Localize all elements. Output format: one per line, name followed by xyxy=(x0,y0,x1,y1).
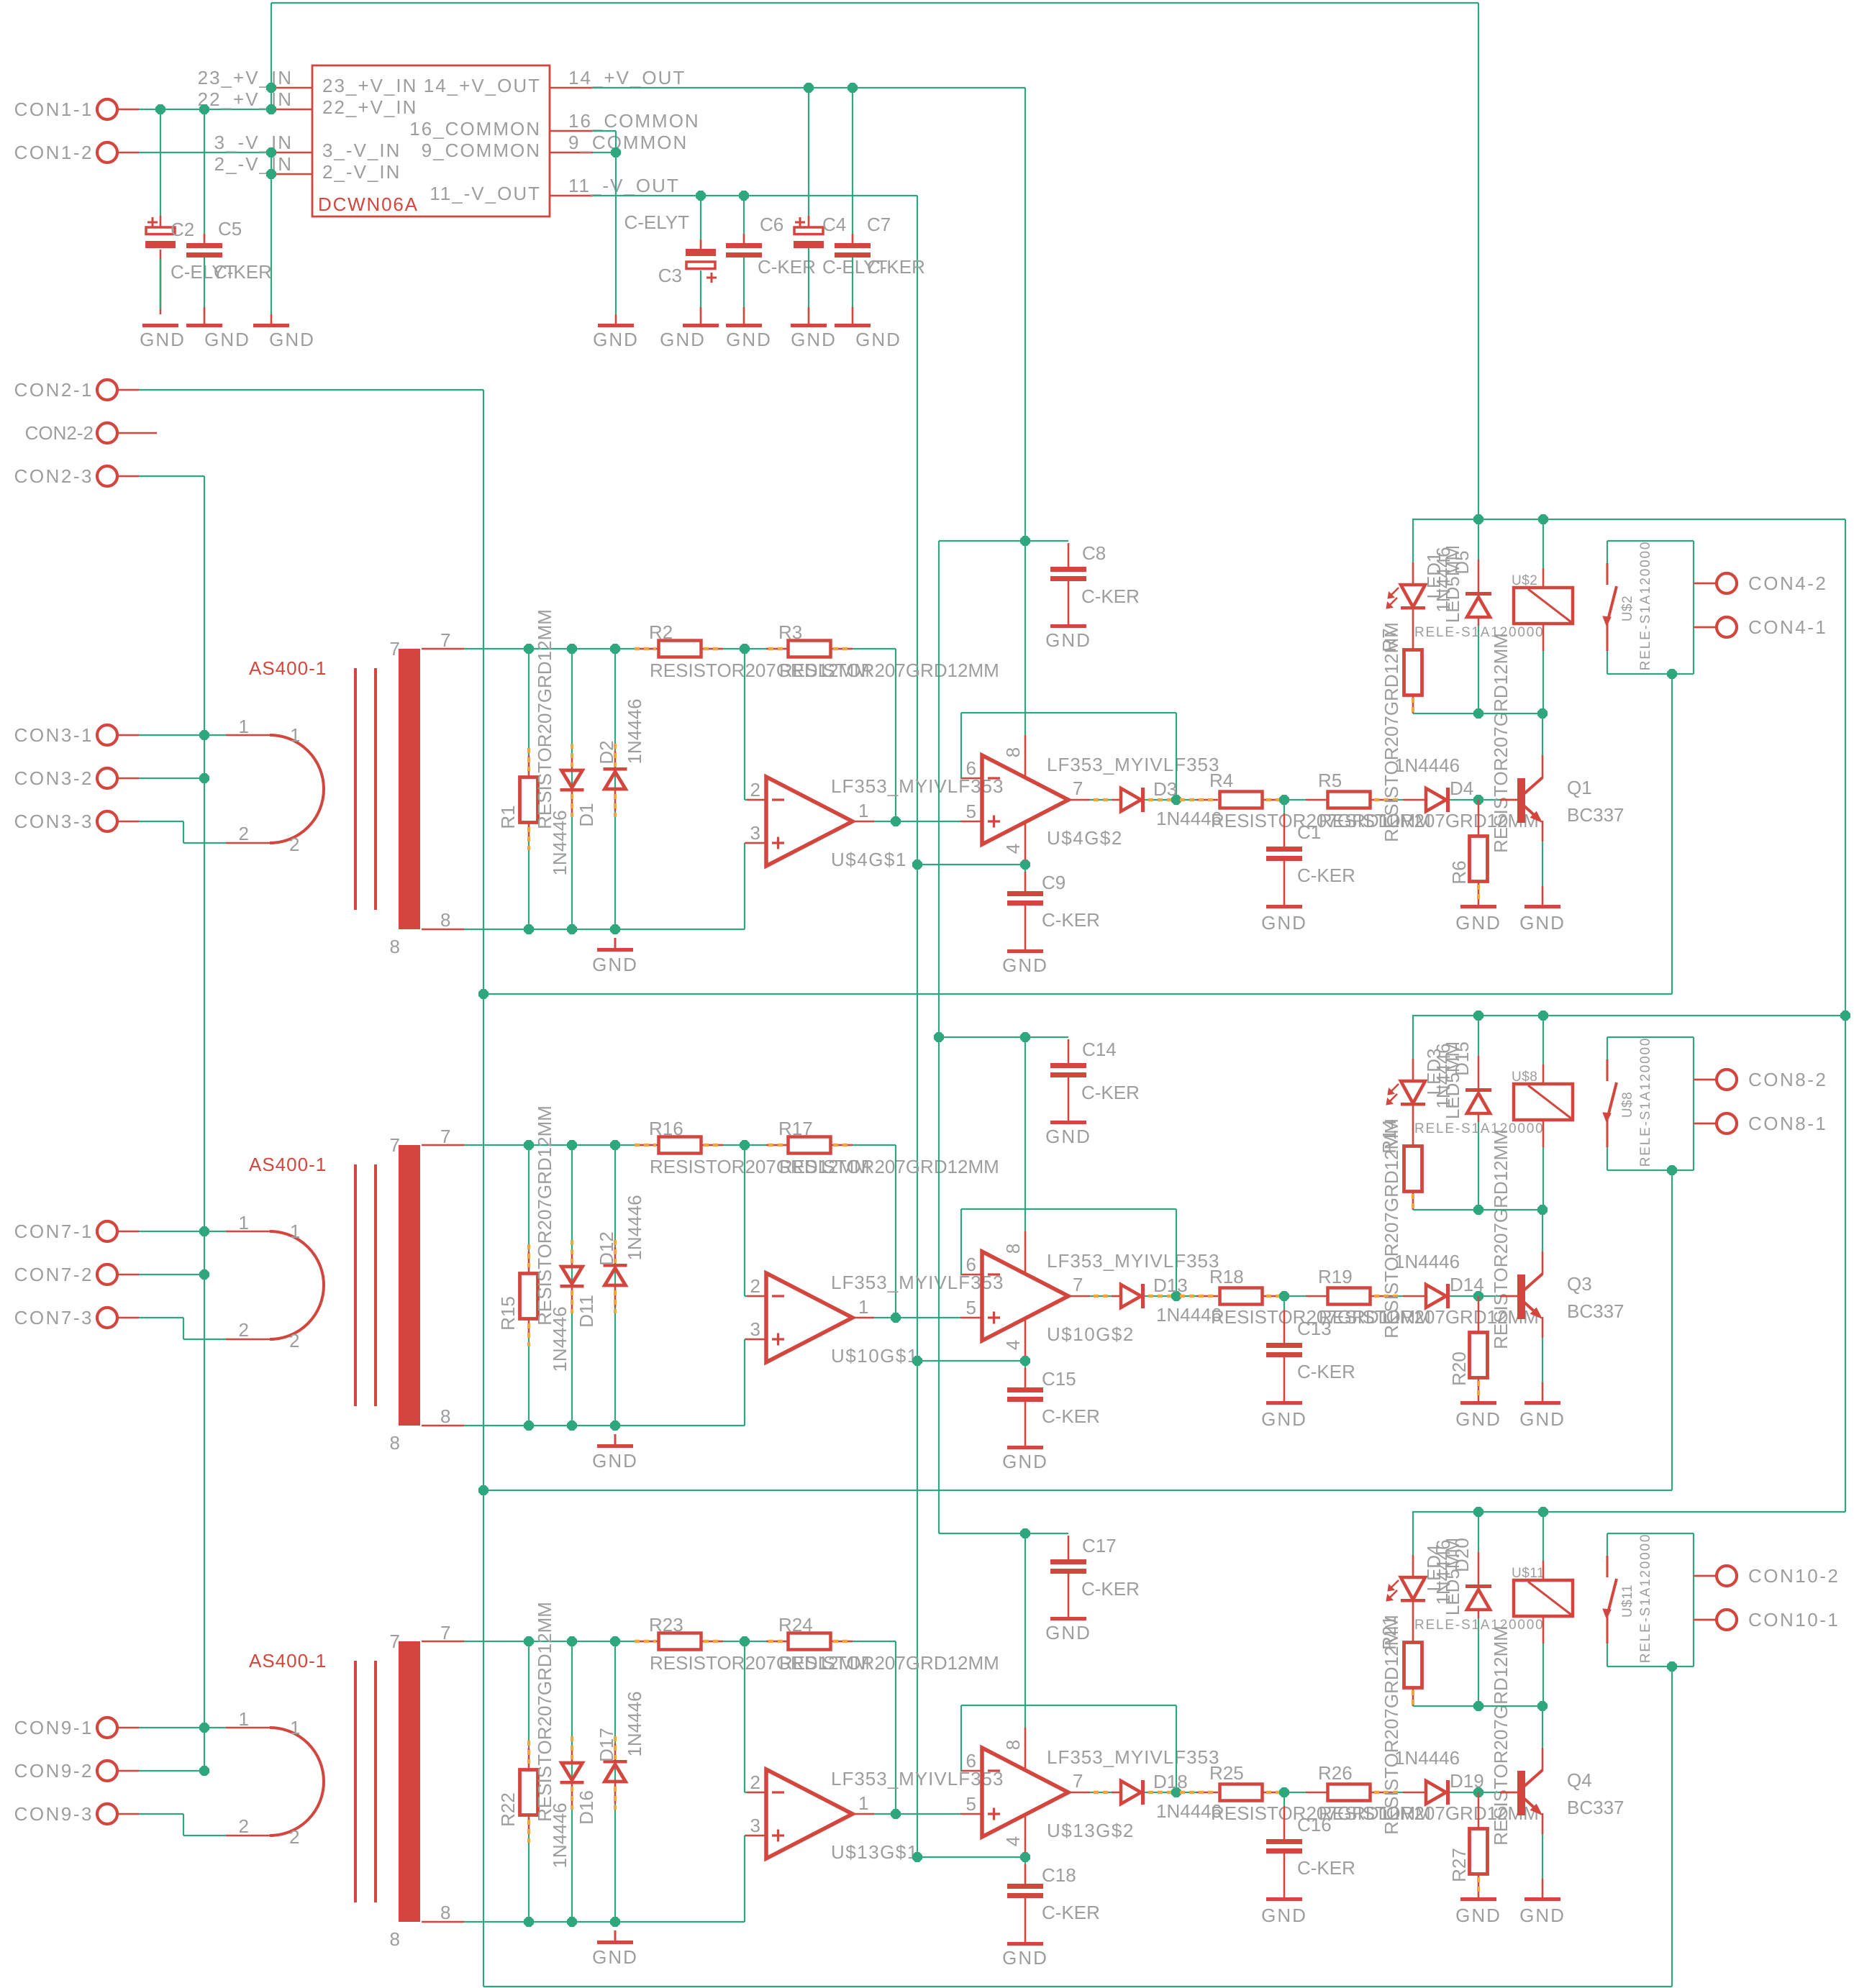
svg-text:BC337: BC337 xyxy=(1567,1300,1624,1322)
svg-text:1N4446: 1N4446 xyxy=(1394,1747,1460,1769)
svg-text:1N4446: 1N4446 xyxy=(549,810,571,875)
svg-text:GND: GND xyxy=(660,329,706,350)
svg-text:C-KER: C-KER xyxy=(1042,909,1100,931)
svg-text:2: 2 xyxy=(750,1275,760,1297)
svg-text:R27: R27 xyxy=(1448,1848,1470,1882)
svg-text:1: 1 xyxy=(858,1792,868,1814)
svg-text:D19: D19 xyxy=(1450,1770,1484,1792)
svg-text:7: 7 xyxy=(390,1631,400,1652)
svg-text:4: 4 xyxy=(1002,844,1024,854)
svg-text:8: 8 xyxy=(390,1432,400,1454)
svg-text:23_+V_IN: 23_+V_IN xyxy=(198,67,293,88)
svg-text:CON2-1: CON2-1 xyxy=(14,379,94,401)
svg-text:RESISTOR207GRD12MM: RESISTOR207GRD12MM xyxy=(534,1602,555,1822)
svg-text:C-KER: C-KER xyxy=(1081,1578,1140,1600)
svg-text:D16: D16 xyxy=(576,1790,597,1825)
svg-text:1: 1 xyxy=(239,1708,249,1730)
svg-text:GND: GND xyxy=(1002,954,1048,976)
svg-text:4: 4 xyxy=(1002,1836,1024,1846)
svg-text:3_-V_IN: 3_-V_IN xyxy=(214,132,293,153)
svg-text:RELE-S1A120000: RELE-S1A120000 xyxy=(1638,541,1653,670)
svg-text:Q3: Q3 xyxy=(1567,1273,1592,1295)
svg-text:CON1-1: CON1-1 xyxy=(14,99,94,120)
svg-text:2: 2 xyxy=(289,1826,299,1848)
svg-text:RESISTOR207GRD12MM: RESISTOR207GRD12MM xyxy=(779,1652,999,1674)
svg-text:2: 2 xyxy=(289,1330,299,1351)
svg-text:C6: C6 xyxy=(760,214,783,235)
svg-text:R17: R17 xyxy=(778,1118,813,1139)
svg-text:1N4446: 1N4446 xyxy=(1394,754,1460,776)
svg-text:AS400-1: AS400-1 xyxy=(249,1154,327,1175)
svg-text:U$13G$1: U$13G$1 xyxy=(831,1841,919,1863)
svg-text:8: 8 xyxy=(1002,747,1024,757)
svg-text:C18: C18 xyxy=(1042,1864,1076,1886)
svg-text:R15: R15 xyxy=(497,1296,519,1331)
svg-text:GND: GND xyxy=(791,329,837,350)
svg-text:7: 7 xyxy=(1073,1770,1083,1792)
svg-text:RELE-S1A120000: RELE-S1A120000 xyxy=(1414,1618,1544,1633)
svg-text:GND: GND xyxy=(592,1946,638,1968)
svg-text:CON3-1: CON3-1 xyxy=(14,724,94,746)
svg-text:1: 1 xyxy=(858,800,868,821)
svg-text:C5: C5 xyxy=(218,218,242,240)
svg-text:5: 5 xyxy=(966,801,976,822)
svg-text:CON7-2: CON7-2 xyxy=(14,1264,94,1285)
svg-text:CON9-1: CON9-1 xyxy=(14,1717,94,1738)
svg-text:14_+V_OUT: 14_+V_OUT xyxy=(424,75,541,96)
svg-text:GND: GND xyxy=(140,329,186,350)
svg-text:D5: D5 xyxy=(1451,550,1473,574)
svg-text:1N4446: 1N4446 xyxy=(1394,1251,1460,1272)
svg-text:GND: GND xyxy=(204,329,250,350)
svg-text:C1: C1 xyxy=(1297,821,1321,843)
svg-text:RELE-S1A120000: RELE-S1A120000 xyxy=(1414,625,1544,640)
svg-text:C16: C16 xyxy=(1297,1814,1332,1836)
svg-text:C13: C13 xyxy=(1297,1318,1332,1339)
svg-text:1: 1 xyxy=(239,1212,249,1234)
svg-text:8: 8 xyxy=(1002,1740,1024,1750)
svg-text:RELE-S1A120000: RELE-S1A120000 xyxy=(1414,1121,1544,1136)
svg-text:1: 1 xyxy=(239,716,249,737)
svg-text:7: 7 xyxy=(1073,778,1083,799)
svg-text:CON4-1: CON4-1 xyxy=(1748,616,1827,638)
svg-text:D15: D15 xyxy=(1451,1041,1473,1076)
svg-text:CON7-3: CON7-3 xyxy=(14,1307,94,1328)
svg-text:6: 6 xyxy=(966,1750,976,1772)
svg-text:RESISTOR207GRD12MM: RESISTOR207GRD12MM xyxy=(779,660,999,681)
svg-text:C-KER: C-KER xyxy=(867,256,925,278)
svg-text:GND: GND xyxy=(1002,1947,1048,1969)
svg-text:7: 7 xyxy=(440,1622,450,1643)
svg-text:RESISTOR207GRD12MM: RESISTOR207GRD12MM xyxy=(534,609,555,829)
svg-text:R20: R20 xyxy=(1448,1351,1470,1386)
svg-text:2_-V_IN: 2_-V_IN xyxy=(214,153,293,175)
svg-text:R16: R16 xyxy=(649,1118,683,1139)
svg-text:CON3-2: CON3-2 xyxy=(14,767,94,789)
svg-text:R1: R1 xyxy=(497,805,519,829)
svg-text:R25: R25 xyxy=(1209,1762,1244,1784)
svg-text:D14: D14 xyxy=(1450,1274,1484,1295)
svg-text:U$11: U$11 xyxy=(1620,1585,1635,1618)
svg-text:8: 8 xyxy=(440,1902,450,1923)
svg-text:3: 3 xyxy=(750,1815,760,1836)
svg-text:RESISTOR207GRD12MM: RESISTOR207GRD12MM xyxy=(1490,1129,1512,1349)
svg-text:9_COMMON: 9_COMMON xyxy=(568,132,688,153)
svg-text:2: 2 xyxy=(750,779,760,801)
svg-text:5: 5 xyxy=(966,1793,976,1815)
svg-text:11_-V_OUT: 11_-V_OUT xyxy=(568,175,680,196)
svg-text:1: 1 xyxy=(858,1296,868,1318)
svg-text:6: 6 xyxy=(966,757,976,779)
svg-text:GND: GND xyxy=(1455,912,1501,934)
svg-text:GND: GND xyxy=(592,1450,638,1472)
svg-text:AS400-1: AS400-1 xyxy=(249,657,327,679)
svg-text:GND: GND xyxy=(1261,1408,1307,1430)
svg-text:D2: D2 xyxy=(596,740,617,764)
svg-text:6: 6 xyxy=(966,1254,976,1275)
svg-text:RESISTOR207GRD12MM: RESISTOR207GRD12MM xyxy=(534,1105,555,1326)
svg-text:C-KER: C-KER xyxy=(1297,1361,1355,1382)
svg-text:C8: C8 xyxy=(1082,542,1106,564)
svg-text:R18: R18 xyxy=(1209,1266,1244,1287)
svg-text:CON3-3: CON3-3 xyxy=(14,811,94,832)
svg-text:LF353_MYIVLF353: LF353_MYIVLF353 xyxy=(1047,1250,1219,1272)
svg-text:22_+V_IN: 22_+V_IN xyxy=(322,96,417,118)
svg-text:1: 1 xyxy=(290,724,300,746)
svg-text:2: 2 xyxy=(239,823,249,844)
svg-text:D18: D18 xyxy=(1153,1771,1188,1792)
svg-text:9_COMMON: 9_COMMON xyxy=(422,140,541,161)
svg-text:2_-V_IN: 2_-V_IN xyxy=(322,161,401,183)
svg-text:1N4446: 1N4446 xyxy=(549,1306,571,1372)
svg-text:Q4: Q4 xyxy=(1567,1769,1592,1791)
svg-text:16_COMMON: 16_COMMON xyxy=(409,118,541,140)
svg-text:2: 2 xyxy=(750,1772,760,1793)
svg-text:R2: R2 xyxy=(649,621,673,643)
svg-text:GND: GND xyxy=(1045,1126,1091,1147)
svg-text:GND: GND xyxy=(593,329,639,350)
svg-text:8: 8 xyxy=(1002,1244,1024,1254)
svg-text:C7: C7 xyxy=(867,214,891,235)
svg-text:CON10-2: CON10-2 xyxy=(1748,1565,1840,1587)
svg-text:LF353_MYIVLF353: LF353_MYIVLF353 xyxy=(1047,754,1219,775)
svg-text:3: 3 xyxy=(750,822,760,844)
svg-text:2: 2 xyxy=(239,1815,249,1837)
svg-text:8: 8 xyxy=(390,936,400,957)
svg-text:C17: C17 xyxy=(1082,1535,1117,1556)
svg-text:C-KER: C-KER xyxy=(1081,585,1140,607)
svg-text:U$4G$2: U$4G$2 xyxy=(1047,827,1123,849)
svg-text:GND: GND xyxy=(855,329,901,350)
svg-text:D4: D4 xyxy=(1450,778,1473,799)
svg-text:GND: GND xyxy=(1045,629,1091,651)
svg-text:C-KER: C-KER xyxy=(214,261,272,283)
svg-text:RESISTOR207GRD12MM: RESISTOR207GRD12MM xyxy=(779,1156,999,1177)
svg-text:R5: R5 xyxy=(1318,770,1342,791)
svg-text:C-KER: C-KER xyxy=(1081,1082,1140,1103)
svg-text:1N4446: 1N4446 xyxy=(549,1802,571,1868)
svg-text:2: 2 xyxy=(289,834,299,855)
svg-text:C4: C4 xyxy=(822,214,846,235)
svg-text:D11: D11 xyxy=(576,1295,597,1328)
svg-text:U$4G$1: U$4G$1 xyxy=(831,849,907,870)
svg-text:D1: D1 xyxy=(576,803,597,826)
svg-text:16_COMMON: 16_COMMON xyxy=(568,110,700,132)
svg-text:R3: R3 xyxy=(778,621,802,643)
svg-text:R19: R19 xyxy=(1318,1266,1353,1287)
svg-text:RESISTOR207GRD12MM: RESISTOR207GRD12MM xyxy=(1490,1625,1512,1846)
svg-text:C15: C15 xyxy=(1042,1368,1076,1390)
svg-text:CON8-1: CON8-1 xyxy=(1748,1113,1827,1134)
svg-text:CON2-2: CON2-2 xyxy=(25,422,94,444)
svg-text:GND: GND xyxy=(269,329,315,350)
svg-text:D12: D12 xyxy=(596,1231,617,1266)
svg-text:C2: C2 xyxy=(171,219,194,240)
svg-text:CON9-2: CON9-2 xyxy=(14,1760,94,1782)
svg-text:GND: GND xyxy=(592,954,638,975)
svg-text:8: 8 xyxy=(440,909,450,931)
svg-text:GND: GND xyxy=(1519,912,1566,934)
svg-text:D3: D3 xyxy=(1153,778,1177,800)
svg-text:1: 1 xyxy=(290,1717,300,1738)
svg-text:R26: R26 xyxy=(1318,1762,1353,1784)
svg-text:D20: D20 xyxy=(1451,1538,1473,1572)
svg-text:RESISTOR207GRD12MM: RESISTOR207GRD12MM xyxy=(1381,1118,1402,1339)
svg-text:D17: D17 xyxy=(596,1728,617,1762)
svg-text:GND: GND xyxy=(1455,1905,1501,1926)
svg-text:GND: GND xyxy=(1519,1408,1566,1430)
svg-text:RELE-S1A120000: RELE-S1A120000 xyxy=(1638,1037,1653,1167)
svg-text:LF353_MYIVLF353: LF353_MYIVLF353 xyxy=(1047,1746,1219,1768)
svg-text:C-ELYT: C-ELYT xyxy=(624,211,689,233)
svg-text:GND: GND xyxy=(726,329,772,350)
svg-text:R4: R4 xyxy=(1209,770,1233,791)
svg-text:C-KER: C-KER xyxy=(1042,1405,1100,1427)
svg-text:Q1: Q1 xyxy=(1567,777,1592,798)
svg-text:5: 5 xyxy=(966,1297,976,1318)
svg-text:BC337: BC337 xyxy=(1567,804,1624,826)
svg-text:8: 8 xyxy=(390,1928,400,1950)
svg-text:1N4446: 1N4446 xyxy=(624,698,645,764)
svg-text:7: 7 xyxy=(390,638,400,660)
svg-text:D13: D13 xyxy=(1153,1275,1188,1296)
svg-text:7: 7 xyxy=(1073,1274,1083,1295)
svg-text:U$10G$1: U$10G$1 xyxy=(831,1345,919,1367)
svg-text:RESISTOR207GRD12MM: RESISTOR207GRD12MM xyxy=(1381,622,1402,842)
svg-text:1N4446: 1N4446 xyxy=(624,1691,645,1756)
svg-text:1: 1 xyxy=(290,1221,300,1242)
svg-text:U$8: U$8 xyxy=(1620,1092,1635,1118)
svg-text:2: 2 xyxy=(239,1319,249,1341)
svg-text:RESISTOR207GRD12MM: RESISTOR207GRD12MM xyxy=(1381,1615,1402,1835)
svg-text:C-KER: C-KER xyxy=(1297,865,1355,886)
svg-text:U$2: U$2 xyxy=(1620,596,1635,621)
svg-text:11_-V_OUT: 11_-V_OUT xyxy=(430,183,541,204)
svg-text:GND: GND xyxy=(1519,1905,1566,1926)
svg-text:R6: R6 xyxy=(1448,860,1470,884)
svg-text:3: 3 xyxy=(750,1318,760,1340)
svg-text:R23: R23 xyxy=(649,1614,683,1636)
svg-text:GND: GND xyxy=(1455,1408,1501,1430)
svg-text:GND: GND xyxy=(1002,1451,1048,1472)
svg-text:7: 7 xyxy=(440,1126,450,1147)
svg-text:CON4-2: CON4-2 xyxy=(1748,573,1827,594)
svg-text:U$13G$2: U$13G$2 xyxy=(1047,1820,1135,1841)
svg-text:R22: R22 xyxy=(497,1792,519,1827)
svg-text:DCWN06A: DCWN06A xyxy=(318,193,419,215)
svg-text:CON1-2: CON1-2 xyxy=(14,142,94,163)
svg-text:RELE-S1A120000: RELE-S1A120000 xyxy=(1638,1533,1653,1663)
svg-text:3_-V_IN: 3_-V_IN xyxy=(322,140,401,161)
svg-text:1N4446: 1N4446 xyxy=(624,1195,645,1260)
svg-text:CON7-1: CON7-1 xyxy=(14,1221,94,1242)
svg-text:C9: C9 xyxy=(1042,872,1065,893)
svg-text:CON9-3: CON9-3 xyxy=(14,1803,94,1825)
svg-text:C-KER: C-KER xyxy=(1042,1902,1100,1923)
svg-text:U$10G$2: U$10G$2 xyxy=(1047,1323,1135,1345)
svg-text:BC337: BC337 xyxy=(1567,1797,1624,1818)
svg-text:14_+V_OUT: 14_+V_OUT xyxy=(568,67,686,88)
svg-text:C-KER: C-KER xyxy=(758,256,816,278)
svg-text:CON8-2: CON8-2 xyxy=(1748,1069,1827,1090)
svg-text:CON10-1: CON10-1 xyxy=(1748,1609,1840,1631)
svg-text:8: 8 xyxy=(440,1405,450,1427)
svg-text:GND: GND xyxy=(1261,912,1307,934)
svg-text:7: 7 xyxy=(440,629,450,651)
svg-text:GND: GND xyxy=(1261,1905,1307,1926)
svg-text:C14: C14 xyxy=(1082,1039,1117,1060)
svg-text:AS400-1: AS400-1 xyxy=(249,1650,327,1672)
svg-text:23_+V_IN: 23_+V_IN xyxy=(322,75,417,96)
svg-text:CON2-3: CON2-3 xyxy=(14,465,94,487)
svg-text:RESISTOR207GRD12MM: RESISTOR207GRD12MM xyxy=(1490,633,1512,853)
svg-text:R24: R24 xyxy=(778,1614,813,1636)
svg-text:4: 4 xyxy=(1002,1340,1024,1350)
svg-text:C-KER: C-KER xyxy=(1297,1857,1355,1879)
svg-text:C3: C3 xyxy=(658,265,682,286)
svg-text:GND: GND xyxy=(1045,1622,1091,1643)
svg-text:7: 7 xyxy=(390,1134,400,1156)
svg-text:22_+V_IN: 22_+V_IN xyxy=(198,88,293,110)
